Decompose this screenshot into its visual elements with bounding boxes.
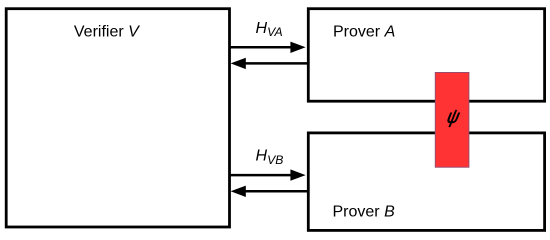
wire arrow B to V (left): [231, 186, 309, 197]
wire arrow V to A (right): [230, 42, 306, 53]
svg-text:Prover A: Prover A: [333, 24, 395, 41]
wire arrow V to B (right): [230, 169, 306, 180]
svg-text:HVB: HVB: [256, 148, 284, 167]
svg-text:HVA: HVA: [256, 20, 283, 39]
svg-text:Prover B: Prover B: [333, 203, 396, 220]
box Verifier V: [6, 9, 229, 227]
svg-text:Verifier V: Verifier V: [74, 24, 140, 41]
wire arrow A to V (left): [231, 58, 309, 69]
box Prover B: [308, 133, 544, 231]
channel block psi (red): [435, 73, 469, 168]
box Prover A: [308, 9, 544, 102]
